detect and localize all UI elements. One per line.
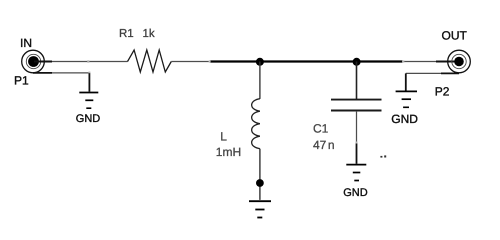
wire join tick (P1 side main wire)	[87, 60, 89, 62]
wire join tick (mid main wire)	[209, 61, 211, 63]
wire P1 shield	[52, 72, 89, 74]
connector P1	[22, 50, 45, 73]
wire join tick (P2 side main wire)	[402, 61, 404, 63]
P1 shield pin stub	[33, 72, 52, 74]
wire to P2 (thin)	[403, 61, 436, 63]
wire join tick (C1 ground wire)	[356, 142, 358, 144]
wire R1 to node (thin)	[171, 61, 209, 63]
wire down to output ground	[405, 73, 407, 90]
junction node B	[353, 58, 361, 66]
P2 pin stub	[436, 61, 455, 63]
wire down to input ground	[88, 73, 90, 92]
svg-text:GND: GND	[76, 113, 101, 125]
svg-text:R1: R1	[119, 28, 134, 40]
resistor R1	[128, 50, 172, 72]
wire C1 ground stub (thick)	[356, 143, 358, 164]
stray dots ".."	[380, 156, 382, 158]
ground at input	[79, 93, 98, 109]
wire node A down to L	[259, 62, 261, 99]
wire C1 down to ground (thin)	[356, 111, 358, 143]
svg-text:P1: P1	[14, 74, 29, 88]
svg-text:C1: C1	[313, 122, 329, 136]
wire join tick (P1 shield corner)	[88, 72, 90, 74]
svg-text:OUT: OUT	[442, 29, 468, 43]
wire P1 to R1	[52, 61, 128, 63]
capacitor C1	[331, 100, 382, 111]
connector P2	[448, 50, 471, 73]
svg-text:1k: 1k	[143, 28, 155, 40]
wire node B down to C1	[356, 62, 358, 100]
ground under C1	[346, 165, 366, 181]
P1 pin stub	[34, 61, 52, 63]
inductor L	[252, 99, 260, 149]
svg-text:GND: GND	[343, 187, 368, 199]
wire P2 shield	[406, 72, 441, 74]
junction at L bottom	[256, 179, 264, 187]
ground under L	[249, 201, 271, 217]
ground at output	[396, 91, 417, 107]
wire L down to ground	[259, 149, 261, 200]
wire node to node (thick)	[210, 60, 404, 62]
svg-text:GND: GND	[391, 112, 418, 126]
P2 shield pin stub	[441, 72, 459, 74]
svg-text:L: L	[220, 130, 227, 144]
svg-text:IN: IN	[20, 36, 32, 50]
svg-text:P2: P2	[435, 85, 450, 99]
svg-text:1mH: 1mH	[216, 145, 241, 159]
junction node A	[256, 58, 264, 66]
svg-text:47n: 47n	[313, 138, 335, 152]
